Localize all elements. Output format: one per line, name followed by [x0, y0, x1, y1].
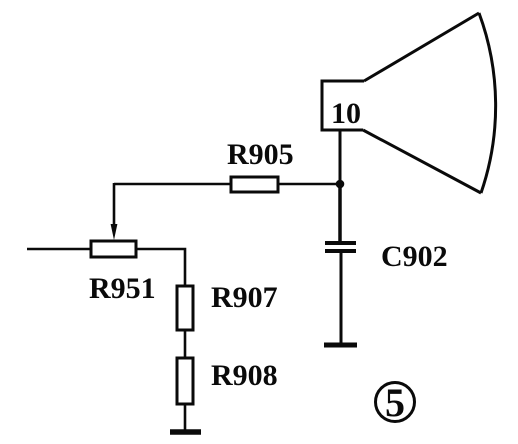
picture tube face arc [479, 13, 496, 193]
ground (below C902) [324, 343, 357, 348]
wiper arrow onto R951 [111, 224, 118, 240]
picture tube funnel bottom edge [363, 130, 481, 193]
wire: R905 left to corner [114, 183, 231, 186]
wire: CRT pin 10 down to node A [339, 130, 342, 184]
svg-text:R905: R905 [227, 138, 294, 171]
wire: node A left to resistor R905 [278, 183, 340, 186]
svg-text:10: 10 [331, 97, 361, 130]
potentiometer R951 [91, 241, 136, 257]
svg-text:C902: C902 [381, 240, 448, 273]
picture tube / CRT horn [322, 81, 364, 130]
resistor R908 [177, 358, 193, 404]
node A junction dot [336, 180, 345, 189]
figure number 5 (circled) [376, 380, 415, 425]
picture tube funnel top edge [364, 13, 479, 81]
resistor R907 [177, 286, 193, 330]
svg-text:R951: R951 [89, 272, 156, 305]
wire: R908 down to ground [184, 404, 187, 432]
wire: left lead of R951 [27, 248, 91, 251]
capacitor C902 [325, 243, 356, 251]
svg-text:R907: R907 [211, 281, 278, 314]
wire: node A down to capacitor C902 [338, 184, 342, 243]
ground (below R908) [170, 429, 201, 435]
svg-text:5: 5 [385, 380, 405, 425]
resistor R905 [231, 177, 278, 192]
wire: R907 to R908 [184, 330, 187, 358]
wire: corner down toward R951 wiper [113, 183, 116, 228]
svg-text:R908: R908 [211, 359, 278, 392]
wire: C902 down to ground [340, 251, 343, 345]
wire: R951 right lead to corner above R907 [136, 249, 185, 286]
